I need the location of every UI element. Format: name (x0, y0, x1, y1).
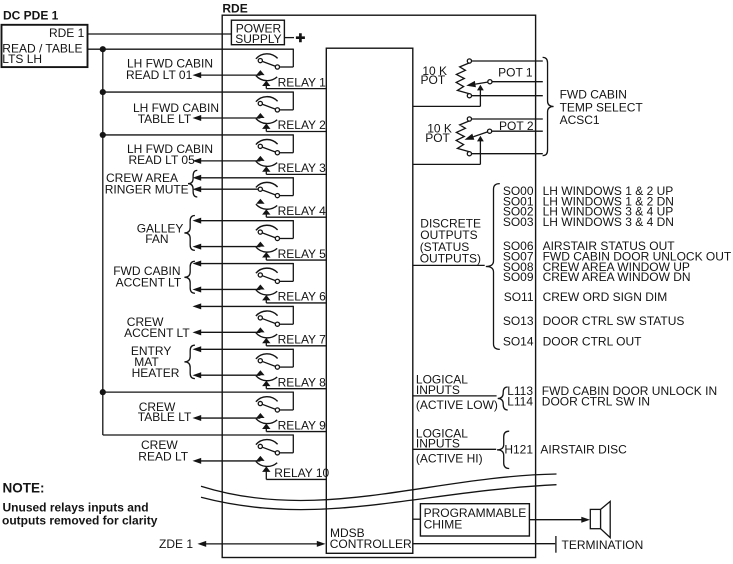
relay K4 output wire (193, 186, 202, 192)
svg-text:POT: POT (421, 73, 446, 87)
wire relay K10 coil to controller (266, 478, 327, 480)
svg-text:RDE 1: RDE 1 (49, 26, 85, 40)
relay K7 feed wire (193, 303, 202, 309)
svg-text:NOTE:: NOTE: (3, 481, 45, 496)
pot 2 wiper (473, 131, 491, 137)
relay K10 feed wire (103, 434, 293, 436)
svg-text:CREW ORD SIGN DIM: CREW ORD SIGN DIM (543, 290, 668, 304)
relay K1 coil actuator (256, 76, 277, 81)
svg-text:RELAY 3: RELAY 3 (278, 161, 327, 175)
relay K10 coil actuator (256, 461, 277, 466)
svg-text:LTS LH: LTS LH (2, 52, 42, 66)
wire relay K4 coil to controller (266, 216, 327, 218)
relay K7 output wire (193, 329, 202, 335)
relay K3 output wire (193, 158, 202, 164)
svg-text:LH WINDOWS 3 & 4 DN: LH WINDOWS 3 & 4 DN (543, 215, 674, 229)
brace relay K8 load wires (184, 345, 195, 378)
wire relay K1 coil to controller (266, 88, 327, 90)
relay K4 contact (260, 189, 277, 195)
wire POT 2 wiper out (492, 130, 543, 132)
wire relay K7 coil to controller (266, 345, 327, 347)
svg-text:H121: H121 (504, 442, 533, 456)
svg-text:POT 1: POT 1 (498, 66, 533, 80)
relay K6 contact (260, 275, 277, 281)
brace relay K4 load wires (188, 170, 197, 197)
relay K1 output wire (193, 72, 202, 78)
svg-text:POT: POT (425, 131, 450, 145)
svg-text:ACCENT LT: ACCENT LT (116, 275, 182, 289)
wire RDE 1 to power supply (88, 33, 232, 35)
relay K7 coil actuator (256, 333, 277, 338)
pot 1 wiper (475, 81, 492, 84)
wire POT 1 bottom terminal (472, 95, 543, 97)
relay K6 output wire (193, 286, 202, 292)
wire relay K5 coil to controller (266, 259, 327, 261)
svg-text:POT 2: POT 2 (499, 119, 534, 133)
svg-text:DOOR CTRL SW STATUS: DOOR CTRL SW STATUS (543, 314, 685, 328)
wire controller to chime (413, 518, 421, 520)
break line lower (201, 485, 557, 510)
relay K9 feed wire (103, 391, 293, 393)
wire relay K6 coil to controller (266, 302, 327, 304)
svg-text:RELAY 7: RELAY 7 (278, 333, 327, 347)
wire POT 1 top terminal (472, 60, 543, 62)
svg-text:RINGER MUTE: RINGER MUTE (105, 182, 189, 196)
relay K8 feed wire (193, 346, 202, 352)
svg-text:(ACTIVE LOW): (ACTIVE LOW) (416, 398, 498, 412)
resistor 10K POT 2 (456, 121, 469, 152)
box U2 main controller (326, 48, 413, 553)
svg-text:CHIME: CHIME (424, 517, 463, 531)
relay K3 feed wire (103, 134, 293, 136)
svg-text:RELAY 10: RELAY 10 (274, 466, 329, 480)
svg-text:TABLE LT: TABLE LT (138, 112, 192, 126)
relay K5 contact (260, 232, 277, 238)
svg-text:RELAY 4: RELAY 4 (278, 204, 327, 218)
svg-text:Unused relays inputs and: Unused relays inputs and (3, 501, 149, 515)
svg-text:HEATER: HEATER (132, 366, 180, 380)
wire chime to speaker (529, 519, 582, 521)
relay K9 coil actuator (256, 419, 277, 424)
wire POT 1 wiper out (492, 81, 543, 83)
brace FWD CABIN TEMP SELECT group (543, 57, 554, 155)
svg-text:SO03: SO03 (503, 215, 534, 229)
relay K2 contact (260, 103, 277, 109)
svg-text:SUPPLY: SUPPLY (235, 32, 281, 46)
svg-text:SO09: SO09 (503, 270, 534, 284)
svg-text:READ LT 01: READ LT 01 (126, 68, 193, 82)
svg-text:SO13: SO13 (503, 314, 534, 328)
wire discrete outputs group line (413, 264, 485, 266)
wire MDSB to termination (413, 543, 555, 545)
relay K3 contact (260, 146, 277, 152)
svg-text:DOOR CTRL OUT: DOOR CTRL OUT (543, 335, 643, 349)
svg-text:L114: L114 (507, 395, 533, 409)
termination stub (555, 536, 557, 553)
relay K8 contact (260, 361, 277, 367)
relay K5 output wire (193, 244, 202, 250)
brace logical inputs hi group (497, 431, 509, 468)
power supply PS1 (231, 20, 284, 45)
relay K2 feed wire (103, 91, 293, 93)
svg-text:RELAY 1: RELAY 1 (278, 75, 327, 89)
relay K10 contact (260, 446, 277, 452)
svg-text:ACSC1: ACSC1 (560, 113, 600, 127)
brace logical inputs low group (498, 387, 508, 410)
svg-text:DC PDE 1: DC PDE 1 (3, 9, 59, 23)
relay K9 output wire (193, 415, 202, 421)
svg-text:TERMINATION: TERMINATION (562, 538, 644, 552)
wire logical inputs low group line (413, 395, 497, 397)
svg-text:ZDE 1: ZDE 1 (159, 537, 193, 551)
svg-text:RELAY 5: RELAY 5 (278, 247, 327, 261)
svg-text:TABLE LT: TABLE LT (138, 410, 192, 424)
relay K1 contact (260, 61, 277, 67)
svg-text:INPUTS: INPUTS (416, 437, 460, 451)
svg-text:RDE: RDE (222, 1, 247, 15)
resistor 10K POT 1 (456, 63, 469, 94)
svg-text:CREW AREA WINDOW DN: CREW AREA WINDOW DN (543, 270, 691, 284)
relay K8 coil actuator (256, 376, 277, 381)
svg-text:outputs removed for clarity: outputs removed for clarity (2, 514, 158, 528)
relay K4 coil actuator (256, 204, 277, 209)
wire relay K2 coil to controller (266, 130, 327, 132)
svg-text:DOOR CTRL SW IN: DOOR CTRL SW IN (542, 395, 650, 409)
wire POT 2 bottom terminal (472, 153, 543, 155)
svg-text:RELAY 8: RELAY 8 (278, 375, 327, 389)
brace relay K5 load wires (184, 216, 195, 251)
relay K3 coil actuator (256, 161, 277, 166)
svg-text:(ACTIVE HI): (ACTIVE HI) (416, 452, 483, 466)
speaker LS1 (590, 509, 600, 528)
svg-text:CONTROLLER: CONTROLLER (330, 537, 412, 551)
svg-text:READ LT 05: READ LT 05 (129, 153, 196, 167)
relay K4 feed wire (193, 175, 202, 181)
wire ZDE 1 to MDSB controller (bidirectional) (198, 541, 207, 547)
svg-text:SO14: SO14 (503, 335, 534, 349)
svg-text:OUTPUTS): OUTPUTS) (420, 251, 481, 265)
svg-text:READ LT: READ LT (138, 450, 188, 464)
wire relay K3 coil to controller (266, 173, 327, 175)
relay K2 coil actuator (256, 118, 277, 123)
block PROGRAMMABLE CHIME (420, 504, 529, 536)
svg-text:RELAY 2: RELAY 2 (278, 118, 327, 132)
break line upper (201, 474, 557, 500)
svg-text:ACCENT LT: ACCENT LT (124, 326, 190, 340)
wire relay K8 coil to controller (266, 388, 327, 390)
wire relay K9 coil to controller (266, 431, 327, 433)
svg-text:INPUTS: INPUTS (416, 383, 460, 397)
svg-text:FAN: FAN (145, 232, 168, 246)
svg-text:RELAY 6: RELAY 6 (278, 290, 327, 304)
wire power supply + output (284, 37, 294, 39)
relay K9 contact (260, 404, 277, 410)
brace discrete outputs group (486, 184, 500, 350)
relay K10 output wire (193, 458, 202, 464)
box RDE enclosure (222, 15, 535, 557)
svg-text:AIRSTAIR DISC: AIRSTAIR DISC (540, 442, 627, 456)
box DC PDE 1 (RDE 1 / READ TABLE LTS LH source) (2, 25, 88, 67)
relay K7 contact (260, 318, 277, 324)
brace relay K6 load wires (184, 261, 195, 293)
relay K6 feed wire (193, 261, 202, 267)
label + (positive) (296, 33, 305, 42)
svg-text:SO11: SO11 (504, 290, 534, 304)
wire POT 2 top terminal (472, 118, 543, 120)
relay K8 output wire (193, 372, 202, 378)
relay K5 feed wire (193, 218, 202, 224)
relay K1 feed wire (88, 48, 294, 50)
wire controller to POT 2 wiper (413, 163, 481, 165)
relay K2 output wire (193, 115, 202, 121)
relay K6 coil actuator (256, 290, 277, 295)
svg-text:RELAY 9: RELAY 9 (278, 418, 327, 432)
wire READ/TABLE LTS LH bus vertical (102, 49, 104, 435)
wire logical inputs hi group line (413, 448, 496, 450)
wire controller to POT 1 wiper (413, 105, 481, 107)
relay K5 coil actuator (256, 247, 277, 252)
